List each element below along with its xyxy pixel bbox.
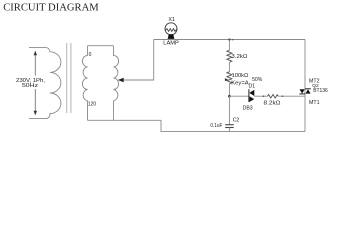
triac Q2 BT136 — [299, 89, 310, 94]
svg-text:LAMP: LAMP — [163, 40, 179, 46]
wire wiper to riser — [124, 40, 154, 81]
svg-text:C2: C2 — [233, 118, 240, 124]
svg-text:50Hz: 50Hz — [22, 83, 38, 89]
svg-text:0: 0 — [89, 52, 92, 58]
potentiometer zigzag — [227, 72, 232, 84]
transformer T1 primary winding — [29, 48, 61, 119]
wire C2 to bottom rail — [228, 128, 230, 132]
right vertical wire — [304, 40, 306, 132]
lamp X1 — [165, 23, 177, 39]
wire top rail to R1 — [228, 40, 230, 51]
diac D1 DB3 — [249, 89, 254, 102]
resistor R2 8.2k zigzag — [268, 95, 279, 99]
potentiometer wiper arrowhead — [225, 78, 228, 81]
svg-text:100kΩ: 100kΩ — [232, 73, 249, 79]
source arrow (230V supply indicator) — [34, 51, 37, 116]
svg-text:D1: D1 — [249, 83, 256, 89]
wire node down to C2 — [228, 96, 230, 124]
svg-text:8.2kΩ: 8.2kΩ — [264, 101, 281, 107]
pin tick — [282, 95, 284, 97]
junction node gate — [228, 95, 231, 98]
pin tick — [263, 95, 265, 97]
svg-text:120: 120 — [88, 101, 97, 107]
resistor R1 3.2k zigzag — [227, 50, 232, 62]
svg-text:X1: X1 — [168, 17, 175, 23]
svg-text:CIRCUIT DIAGRAM: CIRCUIT DIAGRAM — [3, 2, 99, 14]
secondary top connector wire — [88, 45, 114, 47]
wire R1 to pot — [228, 62, 230, 71]
top rail wire — [154, 39, 305, 41]
pin tick on rail — [232, 39, 234, 41]
wire pot to gate node — [228, 84, 230, 96]
svg-text:0.1uF: 0.1uF — [210, 123, 222, 129]
svg-text:DB3: DB3 — [243, 106, 253, 112]
bottom rail wire with step — [88, 120, 306, 131]
svg-text:3.2kΩ: 3.2kΩ — [231, 54, 247, 60]
svg-text:Key=A: Key=A — [231, 81, 249, 87]
capacitor C2 plates — [225, 124, 234, 126]
svg-text:BT136: BT136 — [313, 88, 328, 94]
wire diac to R2 — [254, 95, 267, 97]
transformer core — [66, 43, 68, 113]
gate wire node to diac — [229, 95, 249, 97]
junction node top rail — [228, 38, 230, 40]
svg-text:MT1: MT1 — [309, 100, 320, 106]
svg-text:50%: 50% — [252, 77, 263, 83]
transformer secondary winding (right column) — [114, 46, 119, 121]
wire R2 to triac gate — [278, 95, 305, 97]
transformer secondary winding (left column) — [82, 46, 87, 121]
wiper tap arrow — [118, 78, 124, 82]
